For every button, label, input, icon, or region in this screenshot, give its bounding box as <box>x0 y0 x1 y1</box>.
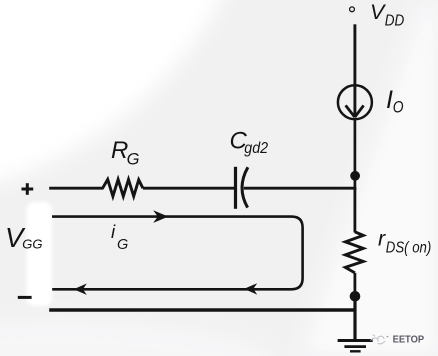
wire rDS to bottom node <box>353 273 356 296</box>
loop wire <box>52 217 303 290</box>
i_G label <box>111 221 128 253</box>
ground <box>338 296 373 351</box>
svg-text:DS( on): DS( on) <box>386 240 432 257</box>
wire node to rDS resistor <box>353 188 356 233</box>
C_gd2 label <box>230 128 269 158</box>
V_DD label <box>370 0 405 30</box>
svg-text:G: G <box>127 151 140 169</box>
bottom wire <box>49 308 356 311</box>
capacitor Cgd2 <box>236 167 248 209</box>
minus terminal <box>18 296 32 299</box>
svg-text:gd2: gd2 <box>244 140 268 157</box>
terminal circle VDD <box>350 7 355 12</box>
wire VDD to current source <box>353 24 356 86</box>
svg-text:GG: GG <box>22 237 42 252</box>
svg-text:DD: DD <box>385 13 405 30</box>
r_DS(on) label <box>378 226 431 256</box>
resistor rDS(on) <box>345 232 363 273</box>
I_O label <box>386 86 404 117</box>
resistor RG <box>103 179 143 196</box>
svg-text:O: O <box>393 99 404 117</box>
svg-text:G: G <box>117 237 128 253</box>
svg-text:r: r <box>378 226 386 250</box>
white box over VGG source area <box>27 202 53 306</box>
loop arrow left (bottom side, right) <box>244 283 257 294</box>
R_G label <box>111 137 140 168</box>
loop arrow right (top side) <box>153 210 168 223</box>
gate wire right segment <box>244 187 356 190</box>
loop arrow left (bottom side, left) <box>74 284 87 295</box>
svg-text:EETOP: EETOP <box>393 335 425 346</box>
wire current source to node <box>354 119 357 191</box>
node dot bottom <box>350 291 361 302</box>
plus terminal <box>22 183 34 195</box>
V_GG label <box>5 222 43 253</box>
EETOP watermark logo <box>371 335 389 344</box>
current source IO <box>338 85 372 119</box>
gate wire left segment <box>49 187 103 190</box>
gate wire middle segment <box>143 187 234 190</box>
node dot top <box>350 171 360 181</box>
